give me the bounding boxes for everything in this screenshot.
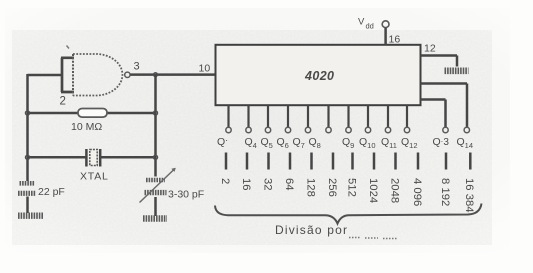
ground left	[18, 212, 43, 218]
pin stub Q8	[327, 105, 329, 127]
terminal Q4	[246, 127, 251, 132]
NAND gate U1 input bracket	[61, 58, 74, 92]
svg-text:12: 12	[424, 43, 436, 55]
NAND gate U1 body	[72, 54, 74, 96]
resistor R1 wire right	[107, 112, 156, 115]
svg-text:16: 16	[240, 178, 252, 191]
svg-text:2048: 2048	[388, 178, 400, 203]
junction dot right resistor row	[153, 111, 157, 115]
pin stub Q4	[247, 105, 249, 127]
svg-text:256: 256	[326, 178, 338, 197]
stub div 64	[289, 153, 292, 170]
terminal Q10	[365, 127, 370, 132]
output pin stubs and terminals Q1..Q12	[229, 105, 408, 127]
pin stub Q6	[287, 105, 289, 127]
wire gate output to IC pin 10	[130, 73, 215, 76]
stub div 256	[332, 153, 335, 170]
terminal Q13	[443, 127, 448, 132]
terminal Q11	[385, 127, 390, 132]
svg-text:XTAL: XTAL	[80, 171, 109, 183]
stub div 4096	[417, 153, 420, 170]
wire Q13 from pin 3	[421, 100, 446, 128]
svg-text:2: 2	[60, 96, 66, 108]
wire left rail	[26, 74, 29, 181]
svg-text:64: 64	[283, 178, 295, 191]
junction dot left resistor row	[25, 111, 29, 115]
capacitor C1 22 pF plate bottom	[18, 191, 36, 196]
trimmer capacitor C2 arrow	[140, 169, 176, 203]
division factor numbers (rotated)	[219, 178, 475, 213]
brace division range	[215, 204, 482, 224]
crystal XTAL wire right	[101, 156, 156, 159]
terminal Q1	[226, 127, 231, 132]
svg-text:4 096: 4 096	[411, 178, 423, 206]
pin stub Q5	[267, 105, 269, 127]
stub div 128	[310, 153, 313, 170]
terminal Q12	[404, 127, 409, 132]
terminal Q5	[265, 127, 270, 132]
scan speckle	[12, 30, 492, 245]
output labels row	[217, 135, 473, 150]
stub div 2048	[394, 153, 397, 170]
stub div 2	[225, 153, 228, 170]
ground right	[143, 215, 167, 221]
crystal XTAL plate right	[99, 149, 102, 167]
stub div 1024	[373, 153, 376, 170]
pin label 1	[67, 46, 70, 49]
svg-text:8 192: 8 192	[439, 178, 451, 206]
terminal Q9	[346, 127, 351, 132]
pin stub Q9	[347, 105, 349, 127]
terminal Q6	[285, 127, 290, 132]
pin stub Q1	[227, 105, 229, 127]
resistor R1 body	[78, 109, 107, 118]
ground reset	[445, 68, 469, 75]
crystal XTAL plate left	[85, 149, 88, 167]
svg-text:4020: 4020	[304, 69, 334, 83]
stub div 16384	[469, 153, 472, 170]
junction dot left xtal row	[25, 155, 29, 159]
svg-text:10: 10	[199, 63, 211, 75]
svg-text:3-30 pF: 3-30 pF	[168, 189, 204, 201]
svg-text:Divisão por: Divisão por	[275, 223, 348, 237]
crystal XTAL body	[90, 150, 97, 166]
node junction gate output / right rail	[154, 73, 158, 77]
terminal Q7	[305, 127, 310, 132]
svg-text:16: 16	[389, 34, 401, 46]
pin stub Q11	[387, 105, 389, 127]
wire right rail	[154, 75, 157, 177]
pin stub Q7	[307, 105, 309, 127]
svg-text:dd: dd	[366, 22, 374, 31]
svg-text:128: 128	[304, 178, 316, 197]
stub div 16	[246, 153, 249, 170]
stub div 32	[267, 153, 270, 170]
capacitor C1 22 pF plate top	[20, 181, 35, 186]
resistor R1 wire left	[28, 112, 79, 115]
svg-text:2: 2	[219, 178, 231, 184]
wire left rail lower	[26, 197, 29, 214]
svg-text:3: 3	[134, 61, 140, 73]
NAND gate U1 output bubble	[125, 72, 130, 77]
dotted blanks	[349, 238, 397, 239]
stub div 512	[351, 153, 354, 170]
divider stubs below labels	[226, 153, 470, 170]
wire Q14 from pin 2	[421, 84, 468, 128]
pin stub Q10	[367, 105, 369, 127]
terminal Q14	[464, 127, 469, 132]
svg-text:22 pF: 22 pF	[38, 186, 65, 198]
svg-text:512: 512	[345, 178, 357, 197]
crystal XTAL wire left	[28, 156, 87, 159]
svg-text:16 384: 16 384	[463, 178, 475, 213]
IC U2 4020 body	[216, 45, 421, 105]
trimmer capacitor C2 plate bottom	[145, 190, 167, 195]
wire right rail lower	[154, 197, 157, 216]
wire left feedback top	[28, 74, 63, 77]
pin stub Q12	[406, 105, 408, 127]
trimmer capacitor C2 plate top	[146, 178, 165, 183]
svg-text:32: 32	[261, 178, 273, 191]
stub div 8192	[445, 153, 448, 170]
junction dot right xtal row	[153, 155, 157, 159]
wire Vdd to pin 16	[384, 28, 387, 45]
svg-text:10 MΩ: 10 MΩ	[71, 121, 102, 133]
svg-text:V: V	[358, 17, 365, 28]
svg-text:1024: 1024	[367, 178, 379, 203]
pin 12 reset wire	[421, 56, 458, 67]
terminal Q8	[326, 127, 331, 132]
Vdd terminal circle	[382, 21, 389, 28]
